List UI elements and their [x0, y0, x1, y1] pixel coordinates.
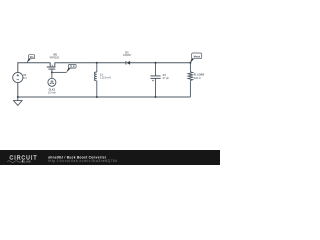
label D1 1N4007	[123, 52, 132, 57]
label V1 8V	[23, 74, 27, 80]
label L1 1.119mH	[100, 74, 111, 80]
svg-text:LAB: LAB	[24, 160, 31, 164]
wire top rail left segment	[18, 62, 50, 64]
wire V1 top lead	[17, 62, 19, 72]
capacitor C1	[150, 63, 160, 97]
node bottom-left junction	[17, 96, 19, 98]
node C1 top junction	[155, 62, 157, 64]
svg-text:Vout: Vout	[193, 55, 199, 59]
node L1 top junction	[96, 62, 98, 64]
inductor L1	[94, 63, 96, 97]
net flag Vin	[27, 55, 35, 64]
svg-text:http://circuitlab.com/c/5ta2he: http://circuitlab.com/c/5ta2he8Q784	[48, 159, 117, 163]
net flag CLK	[66, 64, 76, 72]
resistor R_LOAD	[188, 63, 193, 97]
wire top rail right segment	[130, 62, 190, 64]
footer bar	[0, 150, 220, 165]
node C1 bottom junction	[155, 96, 157, 98]
wire bottom rail	[18, 96, 191, 98]
net flag Vout	[190, 53, 202, 63]
svg-text:10 kHz: 10 kHz	[48, 91, 57, 94]
svg-text:R_LOAD: R_LOAD	[194, 74, 204, 77]
svg-text:47 µF: 47 µF	[163, 77, 170, 80]
node L1 bottom junction	[96, 96, 98, 98]
svg-text:8 V: 8 V	[23, 77, 27, 80]
svg-text:1.119 mH: 1.119 mH	[100, 77, 111, 80]
node gate junction	[51, 71, 53, 73]
label M1 IRF9530	[50, 53, 60, 59]
label CLK1 10kHz	[48, 88, 57, 94]
node Vout junction	[189, 62, 191, 64]
wire V1 bottom lead	[17, 83, 19, 97]
logo circuitlab	[7, 156, 37, 164]
clock source CLK1	[48, 78, 56, 86]
svg-text:Vin: Vin	[30, 56, 34, 59]
wire gate node to clock source	[51, 72, 53, 78]
label C1 47uF	[163, 74, 170, 80]
transistor M1	[47, 62, 56, 72]
svg-text:CLK: CLK	[70, 65, 75, 68]
wire top rail middle segment	[55, 62, 126, 64]
svg-text:1N4007: 1N4007	[123, 54, 132, 57]
label R_LOAD 100ohm	[194, 74, 204, 81]
svg-text:100 Ω: 100 Ω	[194, 77, 201, 80]
svg-text:IRF9530: IRF9530	[50, 56, 60, 59]
diode D1	[126, 61, 130, 65]
ground	[14, 97, 23, 105]
voltage source V1	[13, 72, 23, 82]
wire gate to CLK flag	[52, 71, 67, 73]
